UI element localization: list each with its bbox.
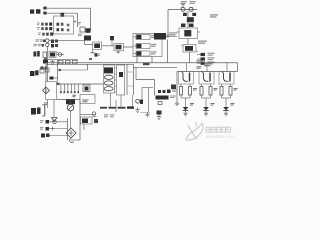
- wire: [133, 66, 177, 68]
- transformer T0: [177, 30, 201, 36]
- bus wire: [46, 63, 133, 65]
- resistor R18: [180, 87, 183, 96]
- label: [234, 88, 238, 91]
- label: [169, 32, 177, 35]
- diode D10: [94, 119, 98, 123]
- varistor RV1: [43, 87, 50, 94]
- relay coil a: [104, 75, 113, 79]
- wire: [123, 46, 133, 48]
- mark: [73, 95, 76, 97]
- diode D4: [43, 60, 48, 64]
- wire: [57, 83, 104, 85]
- diode D5 pair: [181, 24, 194, 28]
- IC label U1: [30, 9, 40, 14]
- resistor R20: [200, 87, 203, 96]
- block X7: [81, 117, 93, 124]
- wire: [140, 112, 150, 114]
- wire: [45, 64, 47, 81]
- output transistor Q6: [179, 72, 194, 85]
- capacitor C2: [43, 12, 46, 15]
- label: [77, 22, 81, 25]
- wire: [83, 124, 85, 130]
- relay K1: [154, 33, 169, 40]
- capacitor C6: [41, 67, 48, 70]
- wire: [47, 12, 78, 14]
- label: [73, 95, 77, 98]
- wire: [136, 57, 138, 63]
- wire: [49, 40, 85, 42]
- resistor R4 row: [36, 39, 59, 43]
- diode D6: [197, 53, 215, 56]
- wire: [44, 59, 78, 61]
- block X3: [181, 45, 198, 53]
- diode D1 row: [37, 23, 52, 26]
- wire: [167, 10, 169, 37]
- label U3: [34, 51, 40, 57]
- resistor R21: [209, 87, 212, 96]
- wire: [142, 88, 153, 100]
- label: [104, 114, 115, 117]
- wire: [56, 54, 64, 56]
- resistor R2: [57, 23, 64, 26]
- label: [44, 58, 47, 60]
- svg-text:www.dzsc.com: www.dzsc.com: [206, 134, 234, 139]
- watermark logo: [186, 122, 203, 140]
- sub-block B: [133, 44, 157, 49]
- wire: [59, 69, 88, 71]
- capacitor C10: [50, 77, 58, 80]
- capacitor C4: [110, 36, 114, 46]
- resistor R22: [220, 87, 223, 96]
- label: [211, 103, 215, 106]
- wire: [177, 71, 238, 73]
- wire: [226, 63, 228, 72]
- fuse box frame: [46, 82, 57, 100]
- wire: [181, 95, 190, 107]
- block frame: [54, 16, 77, 34]
- wire: [81, 114, 97, 116]
- wire: [79, 100, 81, 141]
- block X2: [114, 43, 123, 53]
- ground: [145, 112, 149, 117]
- wire: [206, 63, 208, 72]
- wire: [46, 100, 48, 109]
- diode D7: [197, 57, 215, 60]
- capacitor C13 row: [40, 127, 68, 131]
- diode D2 row: [37, 27, 52, 30]
- label: [210, 14, 218, 17]
- wire: [71, 139, 80, 141]
- wire: [189, 52, 191, 63]
- plug P1: [31, 108, 41, 115]
- fuse F1: [66, 99, 75, 104]
- capacitor C7: [40, 68, 49, 73]
- driver pads: [158, 89, 177, 93]
- wire: [166, 35, 177, 37]
- wire ladder: [127, 64, 134, 95]
- watermark url: [206, 134, 234, 139]
- wire: [187, 39, 189, 45]
- wire: [110, 93, 112, 107]
- watermark text: [206, 127, 231, 132]
- wire: [120, 95, 122, 107]
- bus wire: [46, 62, 238, 64]
- diode D12 row: [41, 134, 68, 138]
- block X4: [43, 52, 62, 58]
- capacitor C3b: [80, 27, 91, 33]
- driver U6: [156, 96, 177, 100]
- diode D15: [223, 107, 229, 116]
- label: [190, 103, 194, 106]
- relay coil b: [104, 81, 113, 85]
- wire: [115, 100, 117, 112]
- wire: [187, 11, 189, 28]
- resistor R19: [189, 87, 192, 96]
- wire: [46, 47, 48, 82]
- ground: [175, 101, 179, 106]
- hook: [70, 138, 74, 143]
- wire: [181, 84, 190, 87]
- wire: [70, 100, 72, 129]
- label VR1: [30, 70, 39, 76]
- relay contact: [104, 67, 113, 73]
- label: [78, 34, 83, 37]
- block X5: [80, 95, 95, 104]
- bracket: [42, 105, 45, 116]
- wire: [176, 72, 178, 102]
- wire: [102, 45, 115, 47]
- diode D8: [197, 61, 215, 64]
- diode D3 row: [38, 33, 53, 36]
- diode D13: [183, 107, 189, 116]
- wire: [148, 88, 150, 113]
- rectifier B1: [67, 104, 74, 111]
- label: [198, 41, 207, 44]
- wire: [168, 9, 197, 11]
- diode D14: [203, 107, 209, 116]
- capacitor C3: [67, 24, 70, 32]
- capacitor C5: [187, 17, 194, 22]
- resistor R5 row: [34, 43, 59, 47]
- wire: [57, 60, 59, 82]
- resistor R3: [57, 28, 64, 31]
- module frame U2: [133, 34, 162, 57]
- connector J1 pins: [60, 84, 79, 93]
- wire: [90, 8, 92, 31]
- transistor Q2: [84, 36, 91, 41]
- relay block K2: [89, 58, 115, 93]
- resistor R15 row: [100, 106, 134, 108]
- transistor Q5: [136, 99, 143, 104]
- resistor R7: [183, 13, 196, 16]
- IC U4: [115, 65, 125, 95]
- label R1: [61, 13, 65, 17]
- sub-block C: [133, 51, 157, 56]
- output transistor Q8: [219, 72, 234, 85]
- terminal block: [83, 85, 90, 92]
- label: [143, 62, 150, 65]
- label: [44, 103, 48, 106]
- wire: [186, 63, 188, 72]
- label: [193, 88, 197, 91]
- block X8: [171, 85, 176, 90]
- capacitor C9: [91, 50, 101, 57]
- wire: [202, 84, 211, 87]
- wire: [87, 64, 89, 70]
- sub-block A: [133, 35, 157, 40]
- capacitor C8 row: [59, 60, 78, 64]
- label: [197, 66, 202, 69]
- capacitor C1: [43, 7, 46, 10]
- label: [231, 103, 235, 106]
- wire: [67, 118, 69, 140]
- wire: [132, 95, 134, 106]
- capacitor C12 row: [40, 120, 68, 124]
- wire: [151, 57, 153, 63]
- diode D11: [157, 111, 162, 120]
- wire: [53, 100, 55, 118]
- wire: [181, 4, 185, 7]
- relay coil c: [104, 87, 113, 91]
- wire: [85, 41, 93, 45]
- transistor Q4: [189, 7, 194, 12]
- label: [214, 88, 218, 91]
- label: [197, 60, 213, 66]
- capacitor C15: [158, 102, 162, 105]
- wire: [136, 67, 155, 95]
- triangle TVS: [52, 118, 58, 122]
- output transistor Q7: [199, 72, 214, 85]
- ground: [135, 108, 139, 113]
- rectifier B2: [66, 128, 76, 138]
- wire: [202, 95, 211, 107]
- capacitor C14: [92, 112, 97, 117]
- wire: [222, 95, 231, 107]
- wire: [57, 99, 81, 101]
- label: [181, 1, 197, 4]
- ground: [50, 60, 54, 65]
- wire: [47, 7, 91, 9]
- block frame: [179, 28, 198, 39]
- transistor Q3: [181, 7, 186, 12]
- resistor R23: [229, 87, 232, 96]
- wire: [167, 40, 169, 63]
- wire: [237, 63, 239, 72]
- block X1: [93, 42, 102, 50]
- wire: [77, 13, 79, 27]
- wire: [222, 84, 231, 87]
